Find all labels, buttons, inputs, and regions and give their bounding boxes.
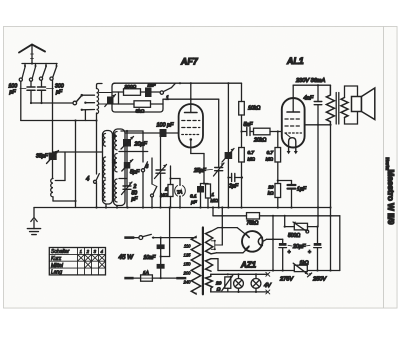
transformer HT secondary [206,231,213,254]
lamp 2 [251,273,261,293]
resistor 10kOhm [239,83,261,147]
svg-text:0.1: 0.1 [190,194,197,199]
svg-text:Lang: Lang [51,270,62,276]
wire col3 vertical [75,121,77,208]
svg-text:1nF: 1nF [148,83,157,88]
svg-text:2: 2 [86,249,90,254]
capacitor 4nF [304,85,322,125]
svg-text:240: 240 [183,279,192,284]
svg-text:2: 2 [133,184,137,190]
svg-text:78kΩ: 78kΩ [247,221,259,227]
switch 1 [160,82,181,101]
svg-text:25pF: 25pF [193,168,207,174]
coil L-osc-left [51,152,77,202]
wire 270 line [218,269,340,271]
wire bus risers [106,204,117,208]
wire 78k right drop [272,216,274,271]
svg-text:20pF: 20pF [134,142,148,148]
label 250V [308,273,328,283]
wire AZ1 anode bottom [211,247,249,254]
svg-text:4: 4 [101,249,104,254]
label 20 Ohm [215,281,222,293]
capacitor 20uF right [308,227,321,271]
tube AF7 [179,82,203,147]
capacitor 100pF [27,81,35,103]
svg-text:Mittel: Mittel [51,263,64,269]
wire grid line y133 [125,132,160,134]
trimmer 20pF [121,131,147,162]
svg-text:1: 1 [165,187,168,192]
svg-text:pF: pF [55,90,63,96]
wire left column [21,81,97,120]
switch S-a2 [29,64,36,82]
wire chassis bus [34,207,331,209]
svg-text:35pF: 35pF [36,154,49,160]
transformer OT core [336,93,339,125]
wire antenna bus [22,63,57,65]
capacitor 5nF [240,122,253,136]
svg-text:MΩ: MΩ [248,157,256,162]
trimmer ant [105,95,116,107]
switch 2b [151,158,157,208]
svg-text:pF: pF [9,90,17,96]
capacitor 10nF lower [157,208,170,279]
transformer core [202,228,204,295]
coil L-ant [97,84,112,121]
capacitor 1uF [288,181,307,208]
label 100pF [9,84,27,96]
svg-text:AL1: AL1 [286,56,304,66]
variable cap tuning [155,133,167,208]
trimmer 50pF switch2 [122,182,139,208]
svg-text:kΩ: kΩ [268,191,274,196]
svg-text:200Ω: 200Ω [124,84,137,90]
transformer heater AZ1 [206,259,213,272]
wire OT down x330 [329,124,331,271]
capacitor 300pF [38,80,46,103]
svg-text:MΩ: MΩ [266,157,274,162]
svg-text:3: 3 [146,164,149,170]
wire screen line y125 [305,124,331,126]
svg-text:275V: 275V [279,277,294,283]
transformer OT primary [326,85,334,125]
resistor 78kOhm [247,213,260,227]
svg-text:100 pF: 100 pF [157,123,174,129]
trimmer 25pF column [193,99,224,207]
wire cap bus [31,102,73,104]
capacitor 100pF grid [157,123,179,138]
svg-text:230V 36mA: 230V 36mA [295,78,325,84]
resistor 200 Ohm [112,84,141,96]
tube AZ1 [242,231,263,252]
svg-text:+: + [308,250,311,256]
wire heater AZ1 [211,259,218,271]
bus1 junction dots [95,206,292,208]
capacitor 2uF [227,174,243,190]
wire y151 mid [119,151,148,153]
svg-text:20: 20 [267,185,274,190]
lamp 1 [234,273,244,293]
wire anode line y99 [163,98,219,100]
svg-text:500Ω: 500Ω [288,233,300,239]
svg-text:1µF: 1µF [297,187,307,193]
svg-text:110: 110 [184,243,191,248]
tube AL1 [282,85,305,154]
transformer taps [183,243,192,284]
svg-text:5kΩ: 5kΩ [136,109,145,115]
svg-text:Kurz: Kurz [51,256,62,262]
svg-text:Maestro W II/9: Maestro W II/9 [386,170,395,225]
svg-text:20: 20 [215,281,222,287]
transformer OT secondary [341,86,358,124]
transformer lamp winding [206,274,213,292]
ground [27,208,40,235]
svg-text:3: 3 [94,249,97,254]
wire 35pF column top [52,80,54,151]
resistor 0.7MOhm right [266,130,281,183]
wire lamp rails [211,272,270,294]
switch 4 [86,174,99,184]
coil box A [103,131,113,205]
switch S-a3 [39,64,47,81]
svg-text:2µF: 2µF [228,184,239,190]
capacitor 20uF left [279,239,291,270]
svg-text:10kΩ: 10kΩ [248,106,260,112]
resistor 1MOhm TA [160,166,173,208]
switch mains [124,234,196,239]
svg-text:20µF: 20µF [292,244,306,250]
svg-text:0.7: 0.7 [248,150,255,155]
resistor 0.7MOhm left [239,148,256,208]
svg-text:1kΩ: 1kΩ [300,261,309,267]
wire AZ1 anode top [211,227,246,235]
capacitor 10nF upper [157,238,165,249]
potentiometer 1kOhm [293,261,309,275]
fuse 1A [124,270,176,281]
svg-text:45 W: 45 W [119,254,135,261]
svg-text:pF: pF [131,197,139,203]
trimmer 35pF [36,151,59,164]
switch S-a4 [50,64,58,81]
svg-text:125: 125 [184,252,192,257]
svg-text:5pF: 5pF [130,170,140,176]
potentiometer 500 Ohm [284,216,319,239]
wire y152 to coil box [53,151,103,153]
resistor 1MOhm cathode [206,184,219,208]
switch S-a1 [19,64,26,82]
wire HT center tap [211,206,223,250]
transformer tap stub [176,277,186,280]
svg-text:10nF: 10nF [144,255,157,261]
antenna [19,45,45,64]
jack TA [171,179,186,208]
svg-text:200: 200 [183,270,192,275]
trimmer 5pF [122,160,140,187]
rheostat lamp [222,273,233,291]
svg-text:MΩ: MΩ [160,193,168,198]
svg-text:TA: TA [177,190,183,195]
capacitor 0.1uF [190,184,204,208]
svg-text:1: 1 [80,249,83,254]
svg-text:1: 1 [212,192,215,197]
wire coil-ant bottom [95,119,97,207]
svg-text:1: 1 [166,96,169,102]
capacitor 1nF [141,83,161,98]
switch 3 [141,131,148,208]
svg-text:0.7: 0.7 [267,150,274,155]
resistor 20kOhm coupling [253,128,282,143]
svg-text:AF7: AF7 [180,57,199,67]
coil box B [114,129,126,206]
svg-text:5nF: 5nF [244,122,254,128]
resistor 5kOhm [112,92,163,115]
speaker [352,88,375,120]
wire B+ rail AF7 [114,82,242,84]
label 300pF [47,84,64,96]
svg-text:1A: 1A [143,270,149,276]
switch S-b contact bank [73,94,95,121]
coupling box outline [112,83,163,112]
svg-text:MΩ: MΩ [211,198,219,203]
trimmer column 228 [222,82,234,207]
svg-text:4nF: 4nF [304,96,314,102]
svg-text:AZ1: AZ1 [240,261,257,270]
resistor 20kOhm AL1 [267,179,291,207]
transformer mains primary [191,237,200,294]
wire bus2 [212,206,340,270]
svg-text:Schalter: Schalter [51,249,70,255]
svg-text:Hartu: Hartu [384,158,390,171]
svg-text:250V: 250V [312,277,327,283]
table Schalter [49,248,105,276]
wire AF7 cathode [191,148,208,185]
svg-text:+: + [288,250,291,256]
svg-text:150: 150 [184,261,192,266]
wire y131 top [121,130,143,132]
wire B+ rail AL1 [293,84,330,86]
wire AZ1 cathode [263,238,283,241]
wire y178 [119,178,127,180]
svg-text:20kΩ: 20kΩ [253,138,266,144]
wire AL1 down x317 [317,125,319,227]
